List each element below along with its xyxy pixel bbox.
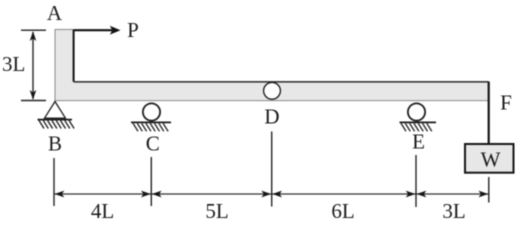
dimension 3L: vertical line with arrowheads	[30, 31, 37, 100]
svg-text:4L: 4L	[91, 199, 114, 223]
label F	[500, 91, 512, 115]
bottom dimension: tick at D	[271, 132, 273, 207]
label P	[127, 18, 139, 42]
label D	[264, 105, 279, 129]
bottom dimension: main line	[54, 193, 489, 195]
bottom dimension: tick at right end	[488, 177, 490, 203]
roller support at C: ground line	[131, 121, 171, 123]
bottom dimension: arrowhead at right end (pointing right)	[479, 191, 489, 198]
svg-text:D: D	[264, 105, 279, 129]
dimension 3L: bottom tick	[21, 100, 46, 102]
bottom dimension: tick at C	[150, 157, 152, 206]
svg-text:W: W	[481, 147, 501, 171]
label 3L (bottom dimension)	[442, 199, 465, 223]
label A	[47, 1, 63, 25]
bottom dimension: arrowheads at D	[261, 191, 282, 198]
svg-text:A: A	[47, 1, 63, 25]
pin D: circle on beam	[264, 82, 281, 99]
label C	[146, 132, 160, 156]
svg-text:E: E	[412, 130, 425, 154]
roller support at E: circle	[408, 103, 425, 120]
label 4L	[91, 199, 114, 223]
label B	[48, 132, 62, 156]
force arrow P at A	[74, 26, 121, 35]
roller support at C: circle	[143, 103, 160, 120]
svg-text:C: C	[146, 132, 160, 156]
beam edge: dark top edge of horizontal span	[74, 81, 489, 83]
svg-text:6L: 6L	[331, 199, 354, 223]
label W	[481, 147, 501, 171]
roller support at E: ground line	[400, 121, 437, 123]
pin support at B: triangle	[45, 102, 66, 119]
roller support at E: hatching	[401, 123, 432, 131]
pin support at B: hatching	[39, 121, 74, 129]
bottom dimension: arrowheads at E	[406, 191, 427, 198]
svg-text:3L: 3L	[442, 199, 465, 223]
beam edge: black inner corner at A (right side of vertical leg)	[73, 30, 75, 82]
weight box W	[465, 144, 514, 173]
beam: L-shaped member A-B-F (grey fill)	[55, 30, 489, 101]
svg-text:B: B	[48, 132, 62, 156]
label E	[412, 130, 425, 154]
dimension 3L: top tick	[21, 29, 46, 31]
bottom dimension: arrowheads at C	[141, 191, 162, 198]
svg-text:F: F	[500, 91, 512, 115]
bottom dimension: tick at E	[415, 155, 417, 207]
bottom dimension: tick at B	[53, 158, 55, 206]
pin support at B: ground line	[38, 119, 73, 121]
svg-text:5L: 5L	[205, 199, 228, 223]
roller support at C: hatching	[133, 123, 168, 131]
label 6L	[331, 199, 354, 223]
label 3L (left dimension)	[2, 52, 25, 76]
svg-text:3L: 3L	[2, 52, 25, 76]
bottom dimension: arrowhead at B (pointing left)	[55, 191, 65, 198]
svg-text:P: P	[127, 18, 139, 42]
hanger rod at F (beam right end down to weight)	[488, 82, 490, 144]
label 5L	[205, 199, 228, 223]
